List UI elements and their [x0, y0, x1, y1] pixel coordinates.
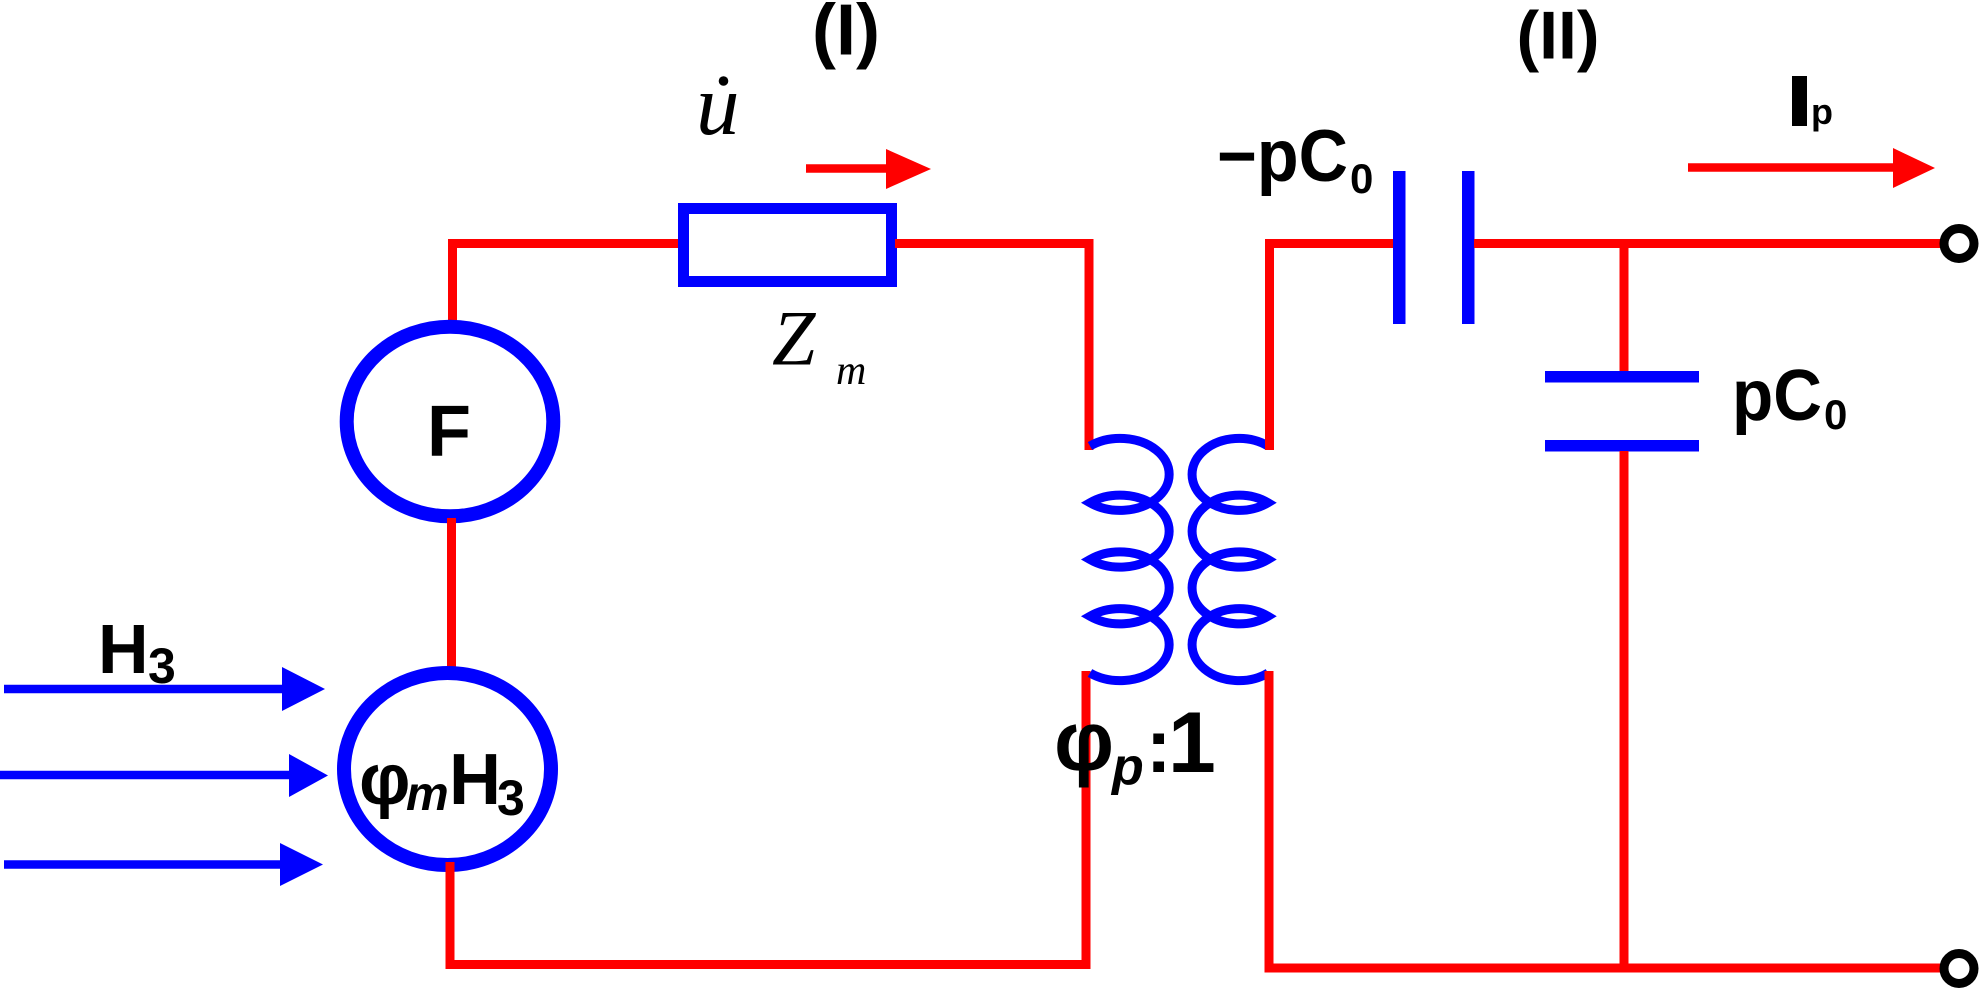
svg-text:1: 1 — [1168, 695, 1216, 791]
wire from F top to resistor Zm left — [453, 244, 681, 323]
output terminal bottom — [1944, 954, 1974, 984]
label u (voltage) — [696, 56, 740, 153]
wire from resistor Zm right to transformer primary top — [895, 244, 1089, 451]
input arrow 1 (blue) — [4, 667, 325, 711]
svg-text:0: 0 — [1824, 391, 1847, 438]
svg-text:p: p — [1811, 91, 1833, 132]
transformer primary winding — [1090, 438, 1169, 680]
label phi-p : 1 (transformer ratio) — [1054, 694, 1216, 796]
wire junction down to capacitor pC0 — [1620, 244, 1629, 373]
source F (force) — [347, 327, 554, 517]
wire from transformer secondary top to capacitor -pC0 — [1270, 244, 1395, 451]
label Ip — [1792, 76, 1833, 132]
svg-text:(I): (I) — [812, 0, 880, 71]
svg-text:φ: φ — [359, 740, 411, 820]
label pC0 — [1732, 356, 1847, 438]
capacitor pC0 top plate — [1545, 371, 1699, 383]
svg-text:F: F — [427, 392, 471, 472]
svg-text:−pC: −pC — [1217, 116, 1348, 197]
label phi-m H3 — [359, 740, 525, 826]
input arrow 3 (blue) — [4, 843, 323, 886]
svg-text:Z: Z — [772, 295, 817, 382]
capacitor -pC0 left plate — [1393, 171, 1406, 324]
svg-text:3: 3 — [497, 770, 525, 826]
arrow Ip direction (red) — [1688, 148, 1935, 188]
wire from capacitor pC0 bottom to bottom rail — [1620, 451, 1629, 968]
wire between F and phi-m-H3 source — [447, 518, 456, 672]
label Zm — [772, 295, 866, 395]
svg-text:m: m — [406, 768, 449, 821]
svg-text:φ: φ — [1054, 694, 1114, 788]
svg-text:m: m — [836, 348, 866, 394]
capacitor -pC0 right plate — [1462, 171, 1475, 324]
svg-text:0: 0 — [1350, 155, 1373, 202]
svg-text:H: H — [98, 610, 149, 688]
wire from phi-m-H3 bottom to transformer primary bottom — [450, 671, 1086, 965]
svg-text:H: H — [449, 740, 501, 820]
arrow u direction (red) — [806, 149, 931, 189]
label -pC0 — [1217, 116, 1373, 202]
svg-text:(II): (II) — [1516, 0, 1599, 74]
capacitor pC0 bottom plate — [1545, 440, 1699, 452]
label H3 (input field) — [98, 610, 176, 694]
output terminal top — [1944, 229, 1974, 259]
svg-text:pC: pC — [1732, 356, 1822, 436]
resistor Zm — [684, 209, 892, 282]
source phi-m H3 — [344, 673, 551, 865]
svg-text:u: u — [696, 56, 740, 153]
input arrow 2 (blue) — [0, 754, 328, 797]
transformer secondary winding — [1192, 438, 1268, 680]
wire from capacitor -pC0 to output terminal top — [1474, 239, 1941, 248]
wire from transformer secondary bottom to output terminal bottom — [1269, 671, 1941, 968]
svg-text:p: p — [1110, 738, 1144, 796]
